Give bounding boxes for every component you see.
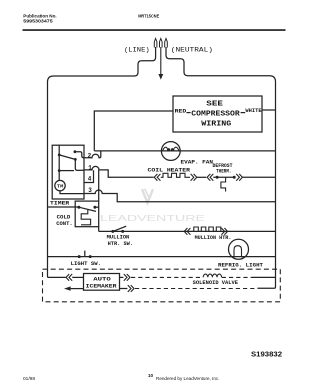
plug prong right (ground) bbox=[165, 39, 168, 48]
dashed wire row 1 to solenoid bbox=[131, 276, 203, 278]
connector chevrons icemaker feed bbox=[66, 274, 72, 281]
svg-text:CONT.: CONT. bbox=[56, 220, 72, 227]
compressor wiring box bbox=[173, 96, 262, 132]
svg-text:4: 4 bbox=[88, 176, 92, 183]
svg-text:2: 2 bbox=[88, 152, 92, 159]
svg-text:10: 10 bbox=[148, 373, 154, 378]
wire TM to pin 3 bbox=[60, 191, 84, 194]
svg-text:Rendered by LeadVenture, Inc.: Rendered by LeadVenture, Inc. bbox=[156, 376, 220, 382]
connector chevrons right of coil heater bbox=[191, 174, 197, 181]
defrost therm terminal right bbox=[233, 176, 236, 179]
refrigerator light bulb bbox=[229, 239, 249, 259]
svg-text:5995303475: 5995303475 bbox=[23, 19, 53, 25]
svg-text:S193832: S193832 bbox=[251, 350, 282, 359]
watermark LeadVenture emblem bbox=[142, 189, 153, 203]
cold control bellows symbol bbox=[81, 210, 91, 225]
wire pin 2 row with hop, up to evap row bbox=[84, 151, 101, 158]
wire pin 3 row with hop, step down, to right border bbox=[84, 190, 276, 202]
wire line side: plug to outer border left bbox=[48, 47, 156, 277]
cold control stub to right edge bbox=[95, 206, 99, 208]
connector chevrons left of coil heater bbox=[154, 174, 160, 181]
coil heater element bbox=[161, 173, 190, 177]
svg-text:REFRIG. LIGHT: REFRIG. LIGHT bbox=[218, 262, 263, 268]
plug prong middle bbox=[160, 39, 163, 48]
wire return arrow to box bbox=[71, 288, 84, 290]
light switch terminal right bbox=[89, 255, 92, 258]
wire row 1 right end bbox=[252, 276, 276, 278]
wire riser pin1 node down to cold control bbox=[98, 170, 100, 201]
cold control box bbox=[75, 201, 99, 227]
timer contact D bbox=[58, 169, 61, 172]
wire light switch row bbox=[48, 256, 276, 258]
svg-text:3: 3 bbox=[88, 187, 92, 194]
wire defrost to right border bbox=[242, 176, 275, 178]
bulb filament bbox=[229, 246, 245, 257]
connector chevrons row 2 bbox=[128, 285, 134, 292]
connector chevrons right of defrost therm bbox=[236, 174, 242, 181]
wire contact A down to TM bbox=[58, 155, 60, 181]
evap fan motor circle bbox=[161, 142, 180, 161]
svg-text:SOLENOID VALVE: SOLENOID VALVE bbox=[193, 280, 238, 286]
wire mullion heater row bbox=[99, 230, 276, 232]
svg-text:MULLION: MULLION bbox=[107, 235, 130, 241]
wire pin 1 row with hop, down to heater row bbox=[84, 166, 154, 177]
svg-text:EVAP. FAN: EVAP. FAN bbox=[181, 159, 214, 166]
svg-text:COIL HEATER: COIL HEATER bbox=[148, 167, 192, 173]
dash right of COMPRESSOR bbox=[241, 112, 246, 114]
mullion heater element bbox=[191, 227, 221, 231]
wire icemaker feed to box bbox=[72, 276, 83, 278]
icemaker return arrow bbox=[64, 286, 71, 290]
svg-text:ICEMAKER: ICEMAKER bbox=[86, 284, 118, 290]
svg-text:LEADVENTURE: LEADVENTURE bbox=[100, 213, 206, 223]
light switch terminal left bbox=[78, 255, 81, 258]
svg-text:WIRING: WIRING bbox=[201, 121, 231, 129]
dashed wire row 2 to right border bbox=[135, 288, 258, 290]
timer box bbox=[52, 145, 84, 199]
light switch plunger bbox=[84, 251, 86, 257]
timer contact C bbox=[74, 158, 77, 161]
wire ground with arrow bbox=[160, 47, 162, 74]
mullion switch terminal left bbox=[111, 230, 114, 233]
timer contact B bbox=[74, 150, 77, 153]
wire through defrost thermostat bbox=[213, 176, 234, 178]
svg-text:WHITE: WHITE bbox=[245, 107, 262, 114]
connector chevrons row 1 bbox=[124, 274, 130, 281]
wire evap fan row bbox=[94, 150, 275, 152]
dashed wire solenoid to right border bbox=[222, 276, 252, 278]
cold control terminal right bbox=[93, 206, 96, 209]
connector chevrons right of mullion heater bbox=[221, 228, 227, 235]
wire neutral side: plug to outer border right bbox=[166, 47, 276, 288]
header rule bbox=[23, 29, 286, 31]
wire icemaker row 2 out bbox=[120, 288, 128, 290]
svg-text:AUTO: AUTO bbox=[93, 277, 111, 283]
svg-text:HTR. SW.: HTR. SW. bbox=[108, 241, 133, 247]
cold control switch arm bbox=[79, 207, 96, 211]
wire cold control feed from left border bbox=[48, 206, 79, 208]
dash left of COMPRESSOR bbox=[186, 112, 190, 114]
connector chevrons left of mullion heater bbox=[184, 228, 190, 235]
wire icemaker row 1 out bbox=[120, 276, 124, 278]
wire pin 4 stub joining pin 1 bbox=[84, 170, 94, 182]
wire cold control to mullion row bbox=[98, 227, 100, 232]
wire to defrost thermostat bbox=[197, 176, 206, 178]
connector chevrons left of defrost therm bbox=[207, 174, 213, 181]
solenoid valve coil bbox=[203, 274, 221, 277]
svg-text:LIGHT SW.: LIGHT SW. bbox=[71, 261, 101, 267]
svg-text:TM: TM bbox=[57, 186, 64, 190]
mullion switch terminal right bbox=[121, 230, 124, 233]
svg-text:TIMER: TIMER bbox=[50, 199, 70, 206]
timer motor TM bbox=[55, 180, 65, 190]
evap fan winding symbol bbox=[163, 147, 179, 151]
cold control terminal left bbox=[77, 206, 80, 209]
svg-text:01/98: 01/98 bbox=[23, 376, 35, 382]
wire contact A to box top bbox=[58, 145, 60, 155]
timer switch arm A-C bbox=[59, 155, 75, 160]
svg-text:SEE: SEE bbox=[206, 101, 223, 109]
wire RED feed: compressor to left riser to evap row bbox=[94, 111, 173, 151]
svg-text:(LINE): (LINE) bbox=[124, 47, 150, 54]
auto icemaker box bbox=[84, 274, 120, 291]
mullion switch arm bbox=[113, 226, 126, 231]
defrost therm sensing element bbox=[221, 177, 226, 191]
svg-text:COMPRESSOR: COMPRESSOR bbox=[191, 111, 240, 119]
svg-text:THERM.: THERM. bbox=[216, 168, 231, 174]
svg-text:MRT15CNE: MRT15CNE bbox=[138, 14, 160, 20]
wire contact B to pin 2 bbox=[75, 152, 84, 158]
defrost therm terminal left bbox=[216, 176, 219, 179]
wire contact C to pin 1 bbox=[75, 159, 84, 170]
wire contact D right bbox=[59, 170, 74, 172]
svg-text:(NEUTRAL): (NEUTRAL) bbox=[171, 46, 213, 53]
timer contact A bbox=[58, 154, 61, 157]
plug prong left bbox=[154, 39, 157, 48]
dashed icemaker option box bbox=[43, 269, 281, 302]
svg-text:MULLION HTR.: MULLION HTR. bbox=[195, 235, 232, 241]
wire WHITE: compressor to right border bbox=[262, 109, 276, 111]
svg-text:RED: RED bbox=[175, 108, 187, 115]
